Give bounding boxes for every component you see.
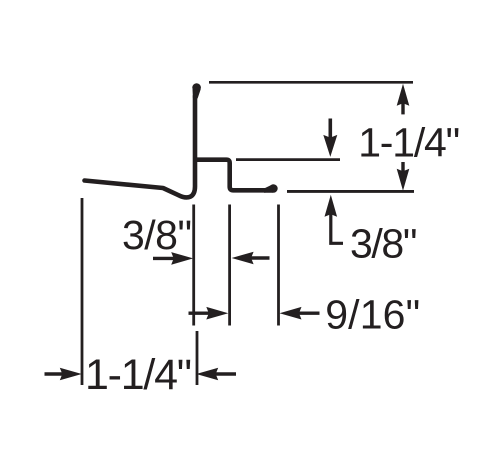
extension line middle (level with step) [236,158,340,161]
svg-text:3/8": 3/8" [350,221,417,267]
svg-text:3/8": 3/8" [122,212,192,258]
extension line vertical under bottom-return hem end [277,205,280,326]
svg-text:1-1/4": 1-1/4" [358,120,460,166]
arrow left to step line (3/8 inch step dim) [232,252,270,265]
arrow up to bottom line with elbow leader (3/8 inch right dim) [325,195,344,244]
profile step: short horizontal, down leg and bottom return [194,160,266,191]
arrow down to middle line (3/8 inch right dim) [323,119,337,157]
arrow right to leg line (3/8 inch step dim) [153,252,193,265]
profile flashing cross-section: left flange and vertical leg [85,96,196,197]
extension line vertical under step leg [228,205,231,326]
extension line vertical under main leg (upper, for 3/8 step dim) [192,205,195,326]
profile hem bead at top of vertical leg [192,83,201,98]
arrow right to step line (9/16 inch dim) [189,307,229,320]
extension line top (level with top of leg) [209,81,413,84]
extension line vertical under left flange end [81,198,84,385]
arrow right to left-flange line (1-1/4 inch bottom dim) [45,368,82,381]
svg-text:9/16": 9/16" [325,292,420,338]
arrow up to top line (1-1/4 inch vertical dim) [397,84,410,115]
extension line vertical under main leg (lower, for bottom 1-1/4 dim) [196,331,199,385]
arrow left to hem line (9/16 inch dim) [280,307,320,320]
svg-text:1-1/4": 1-1/4" [85,351,192,399]
profile hem bead at end of bottom return [264,184,278,193]
arrow left to leg line (1-1/4 inch bottom dim) [196,368,236,381]
extension line bottom (level with bottom return) [287,190,414,193]
arrow down to bottom line (1-1/4 inch vertical dim) [397,162,410,191]
